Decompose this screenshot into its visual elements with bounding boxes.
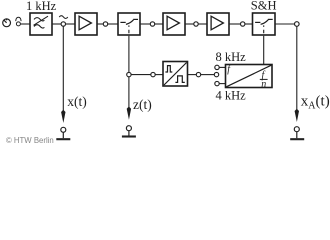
4 kHz socket xyxy=(215,81,219,85)
svg-text:4 kHz: 4 kHz xyxy=(216,89,247,103)
input jack J1 (plug symbol) xyxy=(16,17,21,26)
node B xyxy=(103,22,107,26)
wire amp V1 to node B xyxy=(97,23,103,25)
node D xyxy=(194,22,198,26)
wire input jack to filter xyxy=(21,23,30,25)
pulse shaper output jack xyxy=(196,72,200,76)
wire S1 control down to junction node G xyxy=(128,36,130,73)
node C xyxy=(150,22,154,26)
pulse shaper U2 xyxy=(163,62,188,87)
8 kHz socket xyxy=(215,65,219,69)
wire node G to pulse shaper input jack xyxy=(131,74,151,76)
wire pulse shaper to jack xyxy=(188,74,197,76)
wire S&H to output terminal xyxy=(275,23,295,25)
lowpass filter F1 (1 kHz) xyxy=(30,13,52,35)
z(t) terminal post xyxy=(122,126,136,137)
stub 8 kHz socket to divider xyxy=(219,66,225,68)
wire node E to S&H xyxy=(245,23,253,25)
source generator G1 xyxy=(3,19,11,27)
svg-text:1 kHz: 1 kHz xyxy=(26,0,57,13)
wire amp V2 to node D xyxy=(185,23,194,25)
amplifier V2 xyxy=(163,13,185,35)
frequency divider U3 (f to f/n) xyxy=(226,65,273,88)
sampling switch S1 xyxy=(118,13,140,35)
stub 4 kHz socket to divider xyxy=(219,83,225,85)
sample-and-hold switch U1 xyxy=(253,13,276,35)
svg-text:8 kHz: 8 kHz xyxy=(216,50,247,64)
svg-text:© HTW Berlin: © HTW Berlin xyxy=(6,136,54,145)
pulse shaper input jack xyxy=(151,72,155,76)
node A (x(t) tap) xyxy=(61,22,65,26)
node E xyxy=(241,22,245,26)
svg-text:xA(t): xA(t) xyxy=(301,94,330,112)
wire filter to node A xyxy=(52,23,61,25)
x(t) terminal post xyxy=(56,127,70,139)
wire node A down to x(t) terminal xyxy=(62,26,64,111)
xA(t) terminal post xyxy=(290,127,304,140)
wire node D to amp V3 xyxy=(198,23,207,25)
wire node C to amp V2 xyxy=(155,23,163,25)
wire jack to plug xyxy=(201,74,215,76)
xA(t) terminal arrow xyxy=(295,109,299,122)
wire switch S1 to node C xyxy=(140,23,150,25)
wire jack to pulse shaper xyxy=(155,74,163,76)
wire node F down to xA(t) terminal xyxy=(296,26,298,110)
x(t) terminal arrow xyxy=(61,110,65,123)
output terminal node F xyxy=(295,22,300,27)
z(t) terminal arrow xyxy=(127,107,131,120)
svg-text:x(t): x(t) xyxy=(67,94,87,109)
svg-text:S&H: S&H xyxy=(251,0,277,13)
tilde above node A xyxy=(59,16,68,19)
wire node A to amp V1 xyxy=(65,23,75,25)
svg-text:n: n xyxy=(261,79,266,90)
wire S&H control down to divider xyxy=(263,36,265,65)
amplifier V1 xyxy=(75,13,97,35)
wire amp V3 to node E xyxy=(229,23,241,25)
amplifier V3 xyxy=(207,13,229,35)
wire node G down to z(t) terminal xyxy=(128,77,130,108)
svg-text:z(t): z(t) xyxy=(133,97,152,112)
junction node G xyxy=(127,72,131,76)
wire node B to switch S1 xyxy=(108,23,118,25)
clock plug xyxy=(214,72,218,76)
